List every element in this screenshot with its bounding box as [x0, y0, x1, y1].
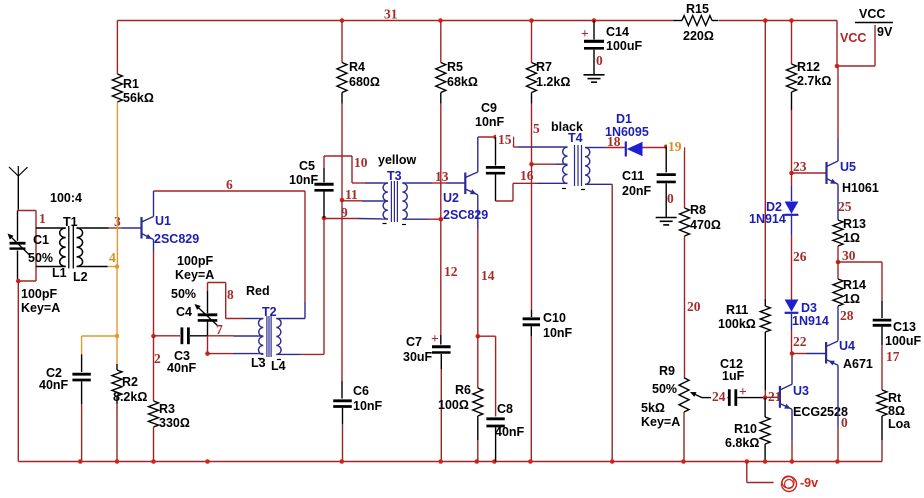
resistor R6: [438, 336, 483, 461]
svg-text:2SC829: 2SC829: [154, 232, 199, 246]
resistor R3: [149, 336, 190, 462]
T1 winding labels: [52, 266, 88, 284]
D3 labels: [792, 301, 829, 328]
node 17 label: [886, 349, 900, 364]
resistor R7: [527, 21, 571, 165]
svg-text:C8: C8: [497, 402, 513, 416]
svg-text:100uF: 100uF: [606, 39, 642, 53]
svg-text:U3: U3: [793, 384, 809, 398]
junction R4/rail: [340, 18, 345, 23]
wire node 30 to C13: [838, 262, 882, 318]
node 14 label: [481, 268, 495, 283]
junction rail C7: [438, 459, 443, 464]
svg-text:H1061: H1061: [842, 181, 879, 195]
capacitor C10: [523, 319, 540, 462]
svg-text:40nF: 40nF: [39, 378, 69, 392]
transformer T4 core: [575, 145, 582, 186]
svg-text:+: +: [431, 331, 439, 346]
wire node 12 down: [440, 219, 442, 344]
node 28 label: [840, 308, 854, 323]
svg-text:10nF: 10nF: [543, 326, 573, 340]
wire VCC feed: [837, 25, 875, 66]
svg-text:R6: R6: [455, 383, 471, 397]
svg-text:Rt: Rt: [888, 391, 902, 405]
svg-text:C13: C13: [893, 320, 916, 334]
junction C3/T2: [205, 351, 210, 356]
transistor U3: [765, 354, 792, 462]
capacitor C11: [657, 147, 676, 217]
C6 labels: [353, 384, 383, 413]
transformer T1 label: [50, 191, 82, 229]
transformer T3 secondary: [402, 183, 407, 219]
svg-text:L1: L1: [52, 266, 67, 280]
antenna: [9, 166, 28, 211]
svg-text:680Ω: 680Ω: [349, 75, 380, 89]
svg-text:C6: C6: [353, 384, 369, 398]
svg-text:8Ω: 8Ω: [888, 404, 905, 418]
svg-text:Key=A: Key=A: [21, 301, 60, 315]
svg-text:2: 2: [154, 351, 161, 366]
junction rail U3: [790, 459, 795, 464]
node 8 label: [227, 287, 234, 302]
capacitor C1: [8, 211, 30, 282]
capacitor C6: [333, 401, 352, 462]
svg-text:17: 17: [886, 349, 900, 364]
wire U2 emitter: [477, 228, 479, 336]
junction node 21: [763, 395, 768, 400]
junction VCC/U5: [835, 64, 840, 69]
capacitor C2: [72, 336, 117, 462]
resistor R2: [112, 336, 147, 462]
svg-text:Loa: Loa: [888, 417, 911, 431]
wire R1 to T1 (orange): [116, 102, 118, 267]
svg-text:C5: C5: [299, 159, 315, 173]
wire node 15: [478, 137, 563, 147]
svg-text:10nF: 10nF: [475, 115, 505, 129]
svg-text:28: 28: [840, 308, 854, 323]
junction rail R2: [115, 459, 120, 464]
wire R4 down to C6: [341, 200, 343, 399]
svg-text:12: 12: [444, 264, 458, 279]
svg-text:5: 5: [533, 121, 540, 136]
svg-text:T3: T3: [387, 169, 402, 183]
transformer T1 secondary L2: [77, 228, 83, 267]
capacitor C4: [195, 291, 218, 336]
junction node 19: [664, 145, 669, 150]
svg-text:56kΩ: 56kΩ: [123, 91, 154, 105]
svg-text:1N6095: 1N6095: [605, 125, 649, 139]
svg-text:C7: C7: [406, 335, 422, 349]
svg-text:A671: A671: [843, 357, 873, 371]
junction orange/C2/R2: [115, 334, 120, 339]
wire node 6: [154, 191, 306, 319]
transformer T2 core: [267, 316, 271, 357]
svg-text:6.8kΩ: 6.8kΩ: [725, 436, 759, 450]
svg-text:10nF: 10nF: [289, 173, 319, 187]
svg-text:R12: R12: [797, 60, 820, 74]
battery -9v: [747, 462, 818, 492]
transformer T3 core: [391, 181, 397, 222]
C12 labels: [720, 357, 747, 399]
node 7 label: [216, 322, 223, 337]
junction rail U4: [835, 459, 840, 464]
node 4 label: [109, 250, 116, 265]
svg-text:13: 13: [435, 169, 449, 184]
svg-text:R7: R7: [536, 60, 552, 74]
svg-text:220Ω: 220Ω: [683, 29, 714, 43]
resistor R1: [112, 21, 153, 106]
C3 labels: [167, 349, 197, 375]
node 19 label: [667, 139, 684, 154]
junction C1 bottom: [16, 279, 21, 284]
wire node 7 junction: [207, 336, 209, 354]
C10 labels: [543, 311, 573, 340]
svg-text:0: 0: [667, 191, 674, 206]
transformer T1 core: [69, 226, 74, 269]
svg-text:U5: U5: [840, 160, 856, 174]
svg-text:4: 4: [109, 250, 116, 265]
transformer T3 primary: [383, 183, 388, 219]
junction C9 top: [493, 135, 498, 140]
svg-text:23: 23: [793, 159, 807, 174]
junction U1 emitter / C3: [151, 334, 156, 339]
svg-text:L4: L4: [271, 359, 286, 373]
svg-text:yellow: yellow: [378, 153, 416, 167]
svg-text:R14: R14: [843, 278, 866, 292]
junction node 23: [789, 171, 794, 176]
C11 labels: [622, 169, 652, 198]
U5 labels: [840, 160, 879, 195]
svg-text:30uF: 30uF: [403, 350, 433, 364]
transistor U5: [827, 66, 839, 220]
junction R12/rail: [789, 18, 794, 23]
transformer T2 secondary L4: [276, 319, 281, 355]
diode D1: [626, 142, 643, 157]
wire net 31 top rail: [117, 21, 837, 67]
node 11 label: [345, 187, 358, 202]
transformer T4 primary: [563, 147, 568, 184]
junction rail batt: [745, 459, 750, 464]
node 25 label: [838, 199, 852, 214]
U1 labels: [154, 214, 199, 246]
svg-text:U4: U4: [839, 339, 855, 353]
svg-text:R3: R3: [159, 402, 175, 416]
capacitor C14: [584, 21, 604, 75]
C13 labels: [885, 320, 921, 348]
svg-text:C11: C11: [622, 169, 644, 183]
T3 labels: [378, 153, 416, 183]
transformer T2 primary L3: [258, 319, 263, 355]
junction R5/rail: [438, 18, 443, 23]
junction R11/rail: [763, 18, 768, 23]
svg-text:40nF: 40nF: [495, 425, 525, 439]
svg-text:ECG2528: ECG2528: [793, 405, 848, 419]
node 0 label C14: [596, 53, 603, 68]
junction node 9: [322, 216, 327, 221]
capacitor C12: [717, 389, 765, 406]
svg-text:+: +: [739, 384, 747, 399]
node 24 label: [711, 389, 727, 404]
svg-text:R15: R15: [686, 2, 709, 16]
svg-text:19: 19: [668, 139, 682, 154]
svg-text:R11: R11: [726, 303, 748, 317]
wire T2 primary mid lead: [208, 335, 259, 337]
C4 labels: [171, 254, 214, 319]
wire T3 sec bottom: [407, 218, 441, 220]
junction node 30: [836, 260, 841, 265]
R9 labels: [641, 364, 680, 429]
svg-text:L2: L2: [73, 270, 88, 284]
wire T2 sec top: [281, 318, 305, 320]
node 21 label: [767, 389, 782, 404]
svg-text:8: 8: [227, 287, 234, 302]
svg-text:20: 20: [687, 299, 701, 314]
U4 labels: [839, 339, 873, 371]
wire node 13: [407, 182, 465, 184]
svg-text:50%: 50%: [652, 382, 677, 396]
wire node 5 tap: [532, 163, 564, 165]
node 3 label: [114, 214, 121, 229]
svg-text:11: 11: [345, 187, 358, 202]
C14 plus: [581, 26, 589, 41]
svg-text:0: 0: [841, 415, 848, 430]
node 20 label: [687, 299, 701, 314]
junction rail C2: [78, 459, 83, 464]
wire U1 emitter: [153, 251, 155, 336]
svg-text:25: 25: [838, 199, 852, 214]
svg-text:470Ω: 470Ω: [690, 218, 721, 232]
junction node 14: [476, 334, 481, 339]
junction rail C10: [528, 459, 533, 464]
junction rail T4sec: [610, 459, 615, 464]
wire node 19: [643, 148, 685, 209]
junction C14/rail: [592, 18, 597, 23]
node 30 label: [842, 248, 856, 263]
junction node 5: [529, 162, 534, 167]
D1 labels: [605, 112, 649, 139]
resistor R13: [833, 217, 866, 262]
node 10 label: [354, 155, 368, 170]
wire T2 sec bottom: [281, 218, 324, 354]
T4 phase marks: [562, 189, 585, 190]
svg-text:1: 1: [39, 211, 46, 226]
svg-text:100Ω: 100Ω: [438, 398, 469, 412]
resistor R15: [674, 2, 719, 43]
capacitor C13: [873, 320, 892, 390]
junction rail R9: [681, 459, 686, 464]
node 26 label: [793, 249, 807, 264]
svg-text:C4: C4: [176, 305, 192, 319]
svg-text:5kΩ: 5kΩ: [641, 401, 665, 415]
svg-text:+: +: [581, 26, 589, 41]
ground C11: [656, 218, 677, 225]
T2 phase marks: [258, 359, 281, 360]
T3 phase marks: [383, 224, 407, 225]
wire orange down to C2 node: [116, 267, 118, 337]
resistor R11: [718, 21, 770, 398]
power VCC symbol: [855, 7, 893, 39]
svg-text:0: 0: [596, 53, 603, 68]
C5 labels: [289, 159, 319, 187]
svg-text:330Ω: 330Ω: [159, 416, 190, 430]
svg-text:T2: T2: [262, 305, 277, 319]
svg-text:10nF: 10nF: [353, 399, 383, 413]
U2 labels: [443, 191, 488, 222]
capacitor C9: [486, 137, 505, 201]
svg-text:100kΩ: 100kΩ: [718, 317, 756, 331]
capacitor C7: [431, 331, 451, 462]
svg-text:1.2kΩ: 1.2kΩ: [536, 75, 570, 89]
resistor R10: [725, 398, 770, 462]
wire T2 primary top lead: [244, 318, 259, 320]
svg-text:100pF: 100pF: [177, 254, 213, 268]
ground C14: [584, 75, 605, 82]
svg-text:9V: 9V: [877, 25, 893, 39]
svg-text:R2: R2: [122, 375, 138, 389]
node 23 label: [793, 159, 807, 174]
svg-text:24: 24: [712, 389, 726, 404]
svg-text:6: 6: [226, 177, 233, 192]
svg-text:14: 14: [481, 268, 495, 283]
svg-text:T1: T1: [63, 215, 78, 229]
svg-text:1N914: 1N914: [792, 314, 829, 328]
resistor R4: [337, 21, 380, 201]
wire node 16: [496, 183, 564, 201]
node 31 label: [384, 7, 398, 22]
svg-text:D3: D3: [801, 301, 817, 315]
wire T2 primary bottom lead: [208, 353, 259, 355]
svg-text:40nF: 40nF: [167, 361, 197, 375]
junction rail R6: [475, 459, 480, 464]
transistor U4: [792, 341, 838, 462]
diode D2: [785, 173, 799, 300]
svg-text:R5: R5: [447, 60, 463, 74]
wire node 11 to T3: [342, 200, 383, 202]
wire node 1: [18, 211, 36, 282]
node 18 label: [607, 134, 621, 149]
net label VCC: [840, 31, 866, 45]
svg-text:Red: Red: [246, 284, 270, 298]
wire node 23 to U5 base: [792, 172, 827, 174]
svg-text:VCC: VCC: [859, 7, 885, 21]
node 2 label: [154, 351, 161, 366]
node 12 label: [444, 264, 458, 279]
node 9 label: [341, 205, 348, 220]
svg-text:100:4: 100:4: [50, 191, 82, 205]
svg-text:50%: 50%: [28, 251, 53, 265]
node 0 label U4: [841, 415, 848, 430]
svg-text:30: 30: [842, 248, 856, 263]
wire T4 sec bottom: [591, 184, 613, 461]
junction node 12: [439, 217, 444, 222]
svg-text:D1: D1: [616, 112, 632, 126]
svg-text:1Ω: 1Ω: [843, 231, 860, 245]
C7 labels: [403, 335, 433, 364]
junction node 4: [115, 264, 120, 269]
svg-text:15: 15: [498, 132, 512, 147]
wire node 4: [83, 266, 117, 268]
transistor U2: [465, 137, 478, 228]
svg-text:C14: C14: [606, 25, 629, 39]
potentiometer R9: [679, 378, 717, 462]
wire node 8: [208, 283, 245, 319]
U3 labels: [793, 384, 848, 419]
svg-text:100pF: 100pF: [21, 287, 57, 301]
svg-text:R10: R10: [734, 422, 757, 436]
svg-text:26: 26: [793, 249, 807, 264]
C2 labels: [39, 366, 69, 392]
transistor U1: [142, 191, 154, 251]
svg-text:1Ω: 1Ω: [843, 292, 860, 306]
node 0 label C11: [667, 191, 674, 206]
resistor Rt: [877, 390, 911, 462]
D2 labels: [749, 200, 786, 226]
node 13 label: [435, 169, 449, 184]
svg-text:C10: C10: [543, 311, 566, 325]
svg-text:2SC829: 2SC829: [443, 208, 488, 222]
resistor R14: [833, 262, 866, 341]
junction rail R3: [151, 459, 156, 464]
capacitor C5: [314, 156, 333, 218]
C14 labels: [606, 25, 642, 53]
junction rail C6: [340, 459, 345, 464]
resistor R12: [787, 21, 832, 174]
junction node 11: [340, 198, 345, 203]
svg-text:C1: C1: [33, 233, 49, 247]
svg-text:U2: U2: [443, 191, 459, 205]
svg-text:68kΩ: 68kΩ: [447, 75, 478, 89]
junction rail C8: [492, 459, 497, 464]
wire antenna to ground rail: [17, 281, 19, 462]
junction node 22: [790, 351, 795, 356]
svg-text:Key=A: Key=A: [175, 268, 214, 282]
svg-text:31: 31: [384, 7, 398, 22]
svg-text:50%: 50%: [171, 287, 196, 301]
resistor R8: [680, 203, 721, 378]
svg-text:-9v: -9v: [800, 476, 818, 490]
svg-text:C9: C9: [481, 101, 497, 115]
transformer T4 secondary: [585, 148, 591, 185]
T2 labels: [246, 284, 286, 373]
C8 labels: [495, 402, 525, 439]
wire node 10: [324, 156, 383, 183]
svg-text:100uF: 100uF: [885, 334, 921, 348]
junction rail R10: [763, 459, 768, 464]
wire node 18: [591, 147, 625, 149]
svg-text:22: 22: [793, 334, 807, 349]
svg-text:VCC: VCC: [840, 31, 866, 45]
wire ground rail: [18, 461, 882, 463]
wire node 5 down: [531, 164, 533, 317]
junction R7/rail: [529, 18, 534, 23]
C1 labels: [21, 233, 60, 315]
junction rail T2: [205, 459, 210, 464]
wire node 9 to T3: [324, 218, 383, 221]
svg-text:2.7kΩ: 2.7kΩ: [797, 74, 831, 88]
svg-text:8.2kΩ: 8.2kΩ: [113, 390, 147, 404]
svg-text:R1: R1: [123, 77, 139, 91]
resistor R5: [436, 21, 478, 220]
svg-text:20nF: 20nF: [622, 184, 652, 198]
node 16 label: [520, 168, 534, 183]
svg-text:R9: R9: [659, 364, 675, 378]
svg-text:7: 7: [216, 322, 223, 337]
svg-text:Key=A: Key=A: [641, 415, 680, 429]
svg-text:1N914: 1N914: [749, 212, 786, 226]
wire node 3: [83, 227, 142, 229]
capacitor C3: [154, 327, 208, 344]
svg-text:1uF: 1uF: [722, 369, 745, 383]
